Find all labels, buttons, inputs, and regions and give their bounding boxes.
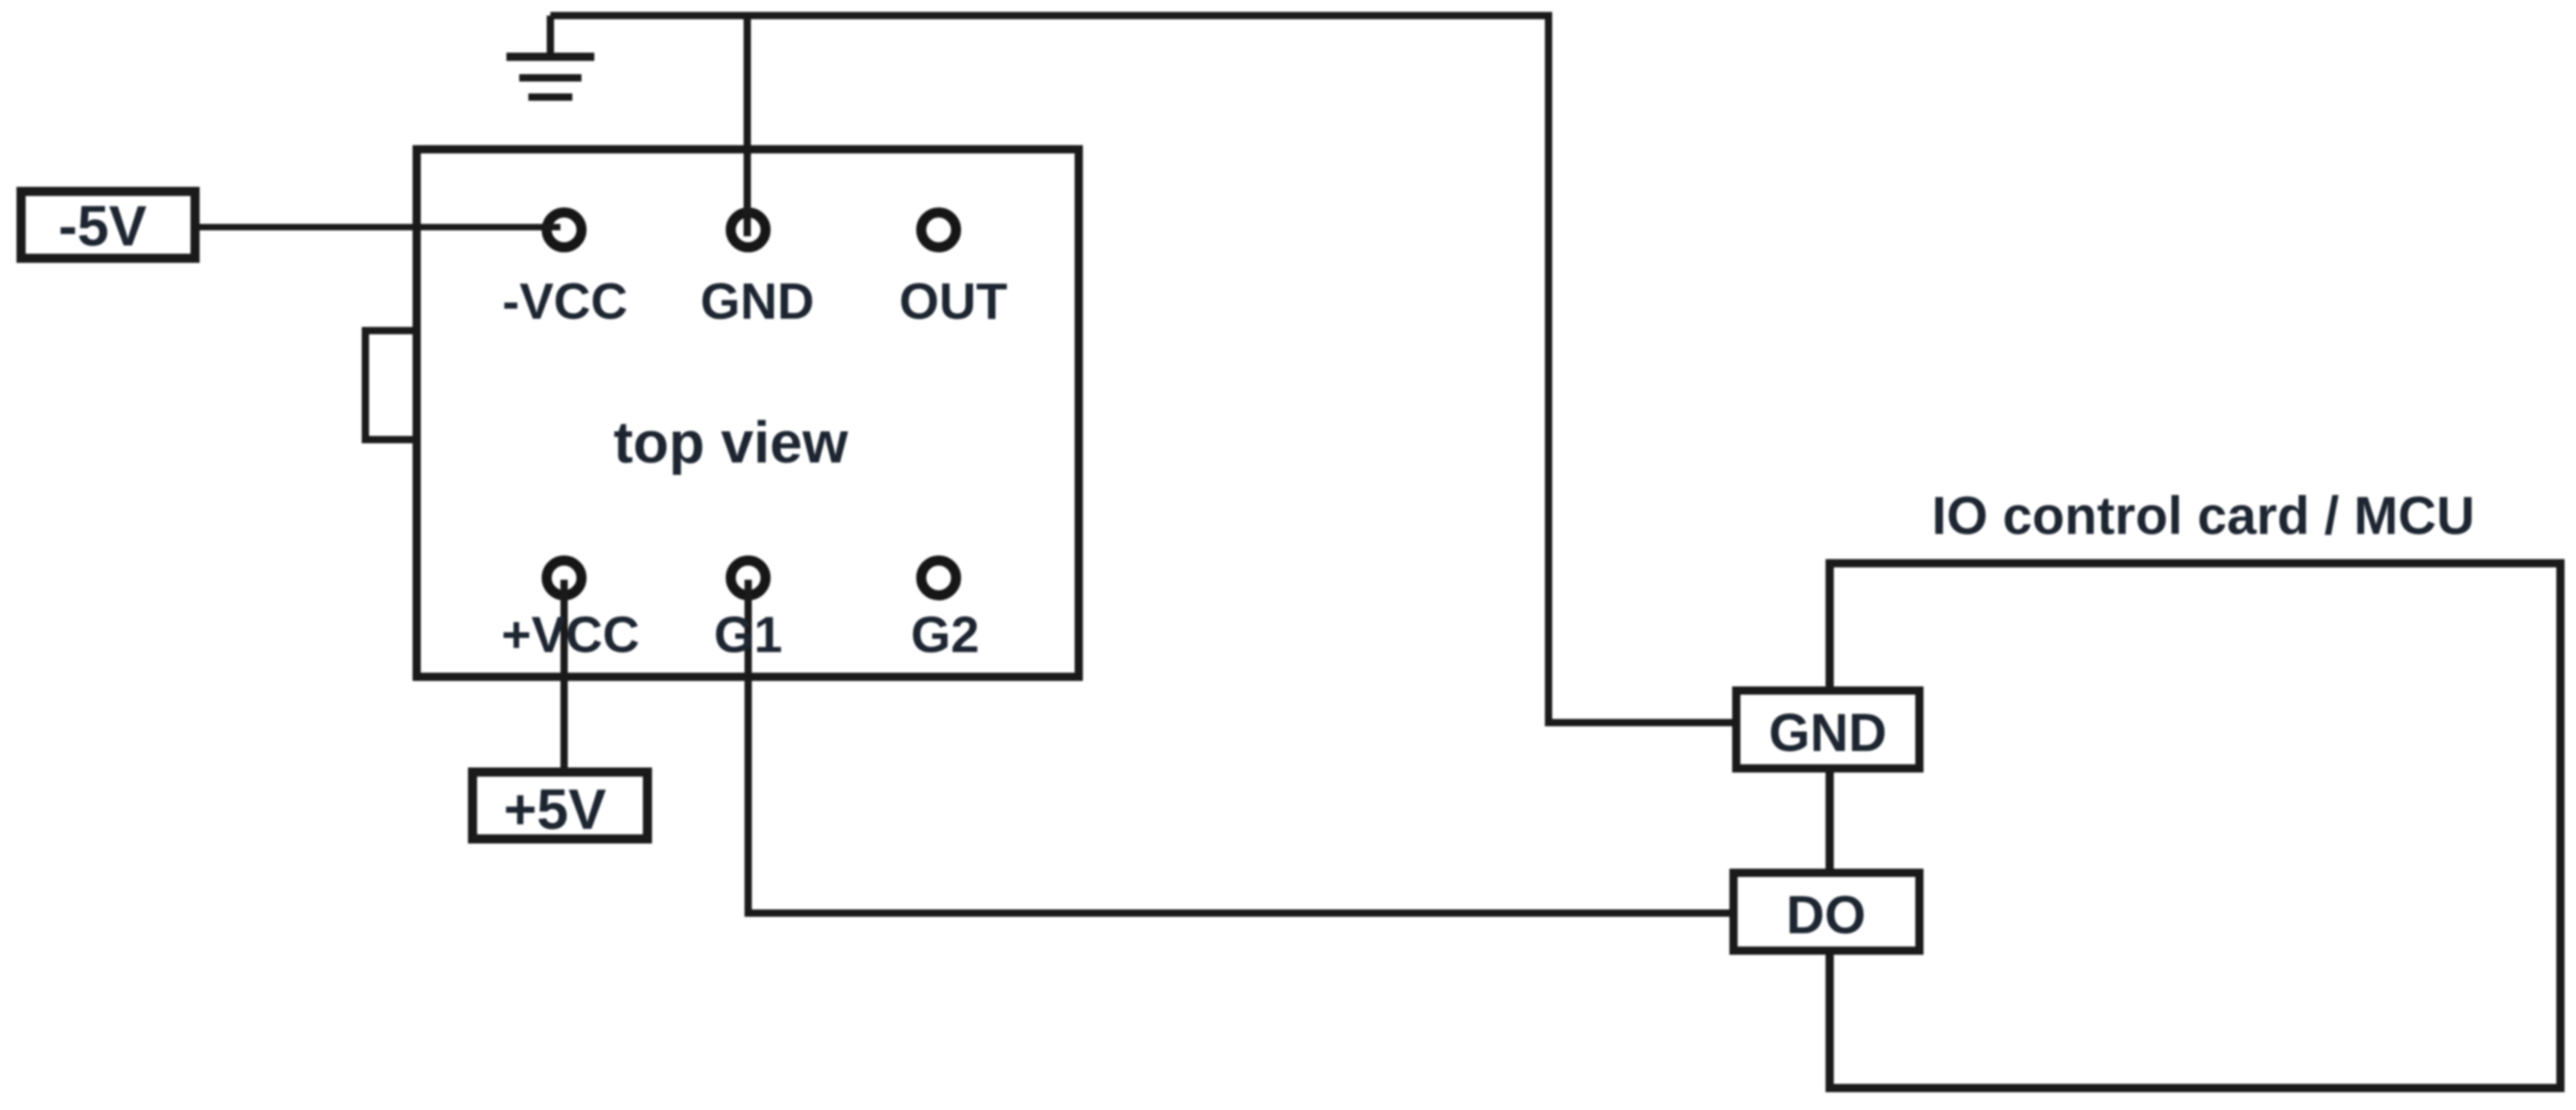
svg-text:-5V: -5V	[59, 195, 147, 258]
svg-text:top view: top view	[614, 409, 848, 475]
svg-text:-VCC: -VCC	[503, 272, 628, 330]
svg-text:DO: DO	[1787, 886, 1866, 945]
svg-text:OUT: OUT	[899, 272, 1007, 330]
svg-text:GND: GND	[1769, 703, 1887, 763]
svg-text:G1: G1	[714, 605, 783, 663]
svg-text:IO control card / MCU: IO control card / MCU	[1932, 486, 2475, 546]
svg-text:GND: GND	[701, 272, 814, 330]
svg-text:+5V: +5V	[504, 778, 606, 842]
svg-text:G2: G2	[911, 605, 980, 663]
svg-text:+VCC: +VCC	[502, 605, 640, 663]
